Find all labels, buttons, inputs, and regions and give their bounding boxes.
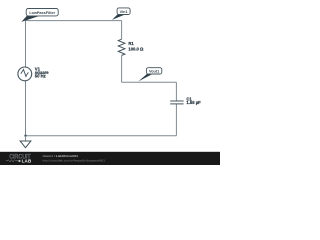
net label Vout1	[138, 68, 161, 82]
svg-text:LowPassFilter: LowPassFilter	[29, 11, 55, 15]
net label Vin1	[112, 8, 130, 20]
capacitor C1	[170, 101, 183, 104]
svg-text:1.55 µF: 1.55 µF	[186, 100, 201, 105]
wire: capacitor branch upper segment	[175, 82, 177, 101]
svg-text:http://circuitlab.com/c/4wqvp5: http://circuitlab.com/c/4wqvp5e/lowpassf…	[43, 158, 106, 162]
watermark bar	[0, 152, 220, 165]
svg-text:100.0 Ω: 100.0 Ω	[128, 47, 144, 52]
net label LowPassFilter	[21, 9, 58, 22]
V1 value label	[35, 66, 49, 78]
R1 value label	[128, 41, 144, 51]
svg-text:50 Hz: 50 Hz	[35, 74, 46, 79]
C1 value label	[186, 96, 201, 105]
wire: left vertical from top rail down to bottom rail through V1	[25, 21, 27, 136]
junction dot at ground node	[24, 135, 26, 137]
wire: right vertical upper segment (Vin1 corner to resistor top)	[121, 21, 123, 40]
wire: right vertical lower segment (resistor bottom to mid rail)	[121, 55, 123, 82]
svg-text:LAB: LAB	[22, 159, 32, 165]
wire: bottom rail	[26, 135, 177, 137]
wire: top rail from LowPassFilter corner to Vin1 corner	[26, 20, 122, 22]
wire: mid horizontal rail (resistor bottom corner to capacitor branch)	[122, 81, 177, 83]
voltage source V1 (square, 50 Hz)	[18, 67, 32, 81]
CircuitLab logo	[6, 154, 32, 165]
resistor R1	[118, 39, 125, 55]
wire: capacitor branch lower segment	[175, 104, 177, 136]
svg-text:Vin1: Vin1	[120, 10, 128, 14]
svg-text:Vout1: Vout1	[149, 69, 159, 73]
ground	[20, 136, 31, 148]
svg-text:R1: R1	[128, 41, 134, 46]
